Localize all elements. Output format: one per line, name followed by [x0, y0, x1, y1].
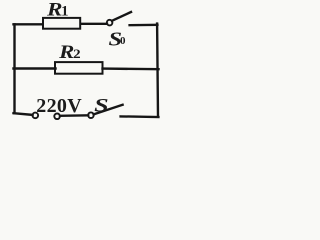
- wire left vertical: [13, 24, 15, 113]
- switch S blade: [94, 105, 123, 115]
- switch S pivot: [88, 112, 94, 118]
- svg-text:2: 2: [73, 47, 81, 61]
- resistor R1: [43, 18, 80, 29]
- terminal right of 220V supply: [54, 114, 60, 120]
- wire middle left (node to R2): [14, 67, 56, 69]
- wire S to bottom-right corner: [121, 115, 159, 118]
- terminal left of 220V supply: [33, 113, 39, 119]
- switch S0 pivot: [107, 20, 113, 26]
- switch S0 blade: [112, 12, 131, 21]
- wire top left (node to R1): [14, 23, 43, 25]
- svg-text:1: 1: [61, 3, 69, 19]
- wire R2 to right vertical: [103, 67, 159, 70]
- wire S0 to top-right corner: [130, 24, 158, 27]
- resistor R2: [55, 62, 103, 74]
- svg-text:0: 0: [120, 35, 126, 47]
- wire bottom left (corner to terminal): [14, 113, 33, 115]
- wire right vertical: [156, 24, 159, 117]
- wire terminal to switch S: [60, 114, 88, 117]
- wire R1 to S0: [81, 23, 107, 25]
- svg-text:220V: 220V: [36, 95, 82, 117]
- svg-text:R: R: [46, 0, 63, 20]
- svg-text:R: R: [58, 42, 74, 63]
- svg-text:S: S: [94, 95, 109, 116]
